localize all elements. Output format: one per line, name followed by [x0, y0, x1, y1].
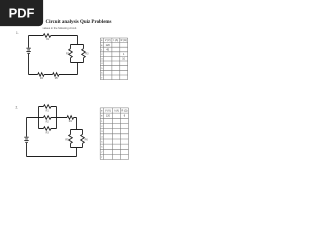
svg-text:values in the following circui: values in the following circuit. [43, 26, 78, 30]
svg-text:V (V): V (V) [105, 39, 111, 42]
svg-text:120: 120 [106, 115, 111, 118]
node 1 problem number [16, 31, 19, 35]
wire bottom side circuit 1 [29, 74, 78, 76]
svg-text:T: T [101, 77, 103, 79]
resistor R5b [69, 134, 73, 143]
wire top side circuit 1 [29, 35, 78, 37]
svg-text:R3: R3 [85, 52, 89, 55]
svg-text:5: 5 [101, 142, 103, 144]
resistor R4b [67, 116, 74, 120]
resistor R3 [82, 49, 86, 58]
svg-text:R3: R3 [46, 132, 50, 135]
wire bank right bus [56, 107, 58, 129]
svg-text:E: E [101, 45, 103, 47]
svg-text:R4: R4 [69, 120, 73, 123]
resistor R3b [43, 127, 51, 131]
svg-text:45: 45 [106, 48, 109, 51]
svg-text:E: E [101, 116, 103, 118]
resistor R2b [43, 116, 51, 120]
svg-text:E: E [101, 40, 103, 42]
svg-text:I (A): I (A) [114, 109, 119, 112]
svg-text:1: 1 [101, 121, 103, 123]
svg-text:4: 4 [101, 63, 103, 65]
wire bank mid branch [39, 117, 57, 119]
svg-text:4: 4 [101, 136, 103, 138]
svg-text:E: E [101, 110, 103, 112]
svg-text:1.: 1. [16, 31, 19, 35]
svg-text:2: 2 [101, 54, 103, 56]
resistor R2 [69, 49, 73, 58]
svg-text:5: 5 [101, 68, 103, 70]
wire left side circuit 1 [28, 36, 30, 75]
svg-text:R1: R1 [46, 110, 50, 113]
battery E1 [26, 48, 30, 53]
svg-text:R2: R2 [46, 121, 50, 124]
svg-text:3: 3 [101, 131, 103, 133]
wire series branch circuit 2 [57, 118, 77, 130]
svg-text:PDF: PDF [9, 5, 35, 20]
node 2 problem number [16, 106, 19, 110]
svg-text:Circuit analysis Quiz Problems: Circuit analysis Quiz Problems [46, 20, 112, 25]
svg-text:R (Ω): R (Ω) [121, 39, 127, 42]
svg-text:7: 7 [101, 152, 103, 154]
svg-text:6: 6 [101, 147, 103, 149]
resistor R1b [43, 105, 51, 109]
wire bottom side circuit 2 [27, 156, 77, 158]
svg-text:2: 2 [101, 126, 103, 128]
wire parallel box circuit 1 [71, 45, 84, 63]
wire bank bottom branch [39, 128, 57, 130]
svg-text:R4: R4 [40, 77, 44, 80]
wire parallel box circuit 2 [71, 130, 83, 157]
svg-text:R5: R5 [55, 77, 59, 80]
wire bank top branch [39, 106, 57, 108]
svg-text:1: 1 [123, 53, 125, 56]
resistor R1 [43, 34, 51, 38]
resistor R5 [53, 73, 59, 77]
svg-text:6: 6 [124, 115, 126, 118]
table 2 text [101, 109, 128, 159]
svg-text:10: 10 [122, 58, 125, 61]
wire left side circuit 2 [27, 118, 39, 157]
table 1 grid [100, 38, 127, 80]
svg-text:V (V): V (V) [105, 109, 111, 112]
table 1 text [101, 39, 127, 79]
svg-text:T: T [101, 157, 103, 159]
svg-text:R6: R6 [85, 138, 89, 141]
battery E2 [24, 137, 28, 142]
wire bank left bus [38, 107, 40, 129]
svg-text:2.: 2. [16, 106, 19, 110]
svg-text:3: 3 [101, 59, 103, 61]
resistor R6b [81, 134, 85, 143]
resistor R4 [38, 73, 44, 77]
svg-text:1: 1 [101, 49, 103, 51]
wire right feed circuit 1 [77, 36, 79, 75]
svg-text:120: 120 [106, 44, 111, 47]
svg-text:6: 6 [101, 73, 103, 75]
PDF badge [0, 0, 43, 26]
svg-text:R (Ω): R (Ω) [121, 109, 127, 112]
table 2 grid [100, 108, 128, 160]
svg-text:R1: R1 [46, 38, 50, 41]
svg-text:I (A): I (A) [113, 39, 118, 42]
